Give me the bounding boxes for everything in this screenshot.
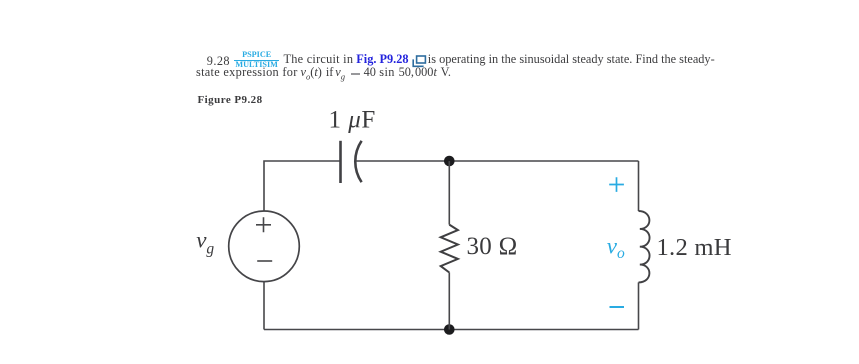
wire: bottom rail (264, 329, 639, 331)
node: bottom junction dot (444, 324, 455, 335)
wire: middle branch lower (448, 273, 450, 330)
svg-text:30 Ω: 30 Ω (467, 233, 518, 260)
line 2 (196, 66, 298, 78)
line 1 rest (428, 53, 715, 65)
line 1: The circuit in (284, 53, 354, 65)
capacitor C curved plate (355, 141, 361, 182)
voltage source + polarity mark (256, 217, 271, 232)
problem number 9.28 (207, 55, 230, 67)
wire: left rail bottom segment (263, 282, 265, 330)
svg-text:vg: vg (196, 228, 214, 258)
PSPICE/MULTISIM tag (234, 51, 279, 59)
wire: right rail lower (638, 282, 640, 329)
line 1: Fig. P9.28 link (356, 53, 408, 65)
wire: middle branch upper (448, 161, 450, 225)
svg-text:1 μF: 1 μF (329, 107, 376, 134)
svg-text:vo: vo (607, 233, 625, 261)
figure popup icon (411, 55, 428, 68)
wire: left rail top segment with top-left corner (264, 161, 341, 211)
svg-text:1.2 mH: 1.2 mH (657, 234, 732, 261)
voltage source - polarity mark (257, 260, 272, 262)
output - polarity mark (cyan) (610, 306, 625, 308)
output + polarity mark (cyan) (609, 177, 624, 192)
wire: top rail from capacitor to top-right corner (356, 160, 638, 162)
figure caption (198, 95, 263, 106)
voltage source Vg circle (229, 211, 300, 282)
wire: right rail upper (638, 161, 640, 211)
resistor R zigzag (441, 225, 458, 273)
capacitor C straight plate (339, 141, 342, 183)
inductor L coil (639, 211, 650, 282)
node: top junction dot (444, 156, 455, 167)
